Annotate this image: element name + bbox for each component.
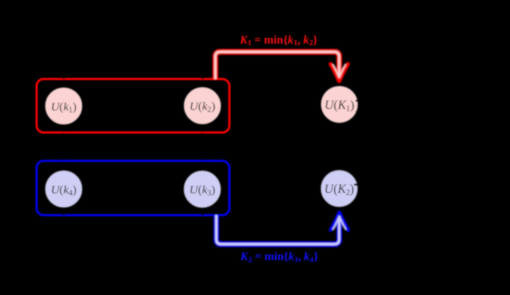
svg-text:U(k3): U(k3) <box>189 183 215 198</box>
hidden black edge notch top-right on red border <box>201 75 204 79</box>
svg-text:K2 = min{k3, k4}: K2 = min{k3, k4} <box>239 250 318 264</box>
red arrowhead core <box>333 65 345 78</box>
hidden black edge notch bottom-right on blue border <box>201 208 204 216</box>
blue arrowhead outer <box>331 213 348 230</box>
hidden bracket serif marks right of U(K2) <box>354 184 359 201</box>
red arrowhead outer <box>331 64 348 81</box>
hidden bracket serif marks right of U(K1) <box>356 100 361 113</box>
wire blue arrow shaft (double line K2) <box>216 215 339 245</box>
svg-text:U(k2): U(k2) <box>190 99 216 114</box>
node U(K1) circle <box>321 86 358 123</box>
label K2 = min{k3,k4} <box>239 250 318 264</box>
hidden black edge notch bottom-left on blue border <box>63 208 66 216</box>
hidden black edge left between boxes <box>63 133 66 161</box>
box red group (fit around U(k1),U(k2)) <box>37 79 230 133</box>
box blue group (fit around U(k4),U(k3)) <box>37 161 230 215</box>
node U(k2) circle <box>184 87 221 124</box>
blue arrowhead core <box>333 216 345 229</box>
label K1 = min{k1,k2} <box>239 33 318 47</box>
wire red arrow shaft (double line K1) <box>215 52 339 80</box>
hidden black edge right between boxes <box>201 133 204 161</box>
svg-text:U(K2): U(K2) <box>324 182 354 197</box>
node U(k1) circle <box>45 87 82 124</box>
svg-text:U(K1): U(K1) <box>324 98 354 113</box>
svg-text:U(k1): U(k1) <box>51 99 77 114</box>
node U(k4) circle <box>45 170 82 207</box>
node U(K2) circle <box>321 170 358 207</box>
svg-text:K1 = min{k1, k2}: K1 = min{k1, k2} <box>239 33 318 47</box>
blue arrow core <box>216 215 339 245</box>
node U(k3) circle <box>184 171 221 208</box>
hidden black edge notch top-left on red border <box>63 75 66 79</box>
svg-text:U(k4): U(k4) <box>51 182 77 197</box>
red arrow core (white inner of double line) <box>215 52 339 80</box>
